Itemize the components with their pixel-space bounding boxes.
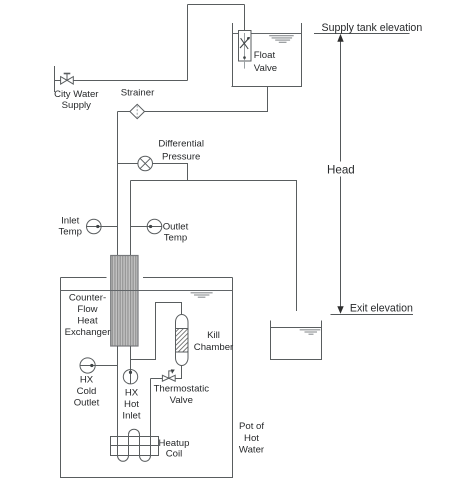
svg-text:Heatup: Heatup — [159, 438, 190, 449]
label HX Cold Outlet — [74, 375, 100, 409]
wire hot inlet tee to kill chamber top — [131, 303, 182, 360]
label Outlet Temp — [163, 221, 189, 243]
wire riser to top — [187, 5, 189, 81]
gauge inlet temp — [87, 219, 118, 234]
dimension line head lower — [340, 177, 342, 307]
supply tank elevation underline — [314, 33, 410, 35]
svg-text:Inlet: Inlet — [61, 215, 79, 226]
wire hot annulus upper — [130, 181, 132, 256]
svg-text:Exchanger: Exchanger — [65, 327, 112, 338]
svg-text:Coil: Coil — [166, 448, 183, 459]
wire thermostatic valve riser — [150, 379, 152, 456]
wire top horizontal run — [188, 4, 245, 6]
wire drop into float valve — [244, 5, 246, 32]
wire city water horizontal run — [55, 80, 188, 82]
exit tank water level symbol — [300, 330, 321, 334]
svg-text:Thermostatic: Thermostatic — [154, 384, 210, 395]
svg-text:Inlet: Inlet — [122, 410, 140, 421]
arrowhead up — [337, 34, 343, 42]
label HX Hot Inlet — [122, 388, 140, 422]
svg-text:Valve: Valve — [254, 63, 277, 74]
supply tank water level symbol — [269, 36, 294, 43]
heatup coil tubes — [118, 429, 151, 461]
gauge HX hot inlet — [123, 370, 137, 384]
supply tank — [232, 23, 303, 87]
svg-text:Kill: Kill — [207, 330, 220, 341]
label Thermostatic Valve — [154, 384, 210, 406]
svg-text:Hot: Hot — [244, 433, 259, 444]
gauge differential pressure — [138, 156, 153, 171]
label Heatup Coil — [159, 438, 190, 459]
gauge outlet temp — [131, 219, 162, 234]
heat exchanger HX shell — [111, 256, 138, 347]
wire supply tank outlet drop — [267, 87, 269, 112]
svg-text:Temp: Temp — [58, 227, 81, 238]
svg-text:Counter-: Counter- — [69, 293, 106, 304]
label Counter-Flow Heat Exchanger — [65, 293, 112, 338]
valve thermostatic — [162, 369, 175, 381]
wire strainer horizontal run — [118, 111, 268, 113]
wire DP tap right — [153, 164, 188, 181]
wire DP tap left — [118, 163, 139, 165]
float valve FV — [239, 31, 252, 69]
svg-text:Hot: Hot — [124, 399, 139, 410]
gauge HX cold outlet — [80, 358, 118, 373]
wire kill chamber bottom drop — [151, 365, 182, 378]
svg-text:Head: Head — [327, 163, 355, 176]
label Differential Pressure — [158, 138, 204, 162]
exit tank — [270, 321, 322, 361]
kill chamber vessel — [176, 315, 189, 366]
svg-text:HX: HX — [125, 388, 139, 399]
svg-text:HX: HX — [80, 375, 94, 386]
svg-text:Exit elevation: Exit elevation — [350, 303, 413, 315]
label Pot of Hot Water — [239, 421, 265, 455]
label Float Valve — [254, 50, 277, 74]
svg-text:Float: Float — [254, 50, 276, 61]
svg-text:Temp: Temp — [164, 233, 187, 244]
svg-text:Pot of: Pot of — [239, 421, 264, 432]
wire cold pipe lower — [117, 346, 119, 455]
heatup coil element block — [111, 437, 159, 456]
svg-text:Outlet: Outlet — [74, 398, 100, 409]
dimension line head upper — [340, 42, 342, 162]
wire main cold pipe upper — [117, 112, 119, 256]
svg-text:Strainer: Strainer — [121, 88, 155, 99]
svg-text:Differential: Differential — [158, 138, 204, 149]
wire hot outlet run to exit — [131, 181, 297, 312]
wire city water stub — [54, 66, 56, 92]
svg-text:Pressure: Pressure — [162, 151, 200, 162]
svg-text:Supply: Supply — [62, 100, 92, 111]
svg-text:Chamber: Chamber — [194, 342, 234, 353]
svg-text:Flow: Flow — [77, 304, 97, 315]
svg-text:Heat: Heat — [77, 316, 98, 327]
svg-text:Water: Water — [239, 445, 265, 456]
valve city water supply — [61, 74, 74, 85]
svg-text:Outlet: Outlet — [163, 221, 189, 232]
pot water level symbol — [191, 293, 213, 297]
svg-text:Cold: Cold — [77, 386, 97, 397]
label Inlet Temp — [58, 215, 81, 237]
strainer — [130, 104, 145, 118]
label City Water Supply — [54, 89, 99, 111]
arrowhead down — [337, 306, 343, 314]
svg-text:Valve: Valve — [170, 395, 193, 406]
svg-text:City Water: City Water — [54, 89, 99, 100]
pot water line — [61, 290, 233, 292]
wire hot inlet stub — [130, 346, 132, 370]
exit elevation underline — [331, 314, 414, 316]
pot of hot water vessel — [60, 278, 233, 478]
svg-text:Supply tank elevation: Supply tank elevation — [322, 22, 423, 34]
label Kill Chamber — [194, 330, 234, 353]
